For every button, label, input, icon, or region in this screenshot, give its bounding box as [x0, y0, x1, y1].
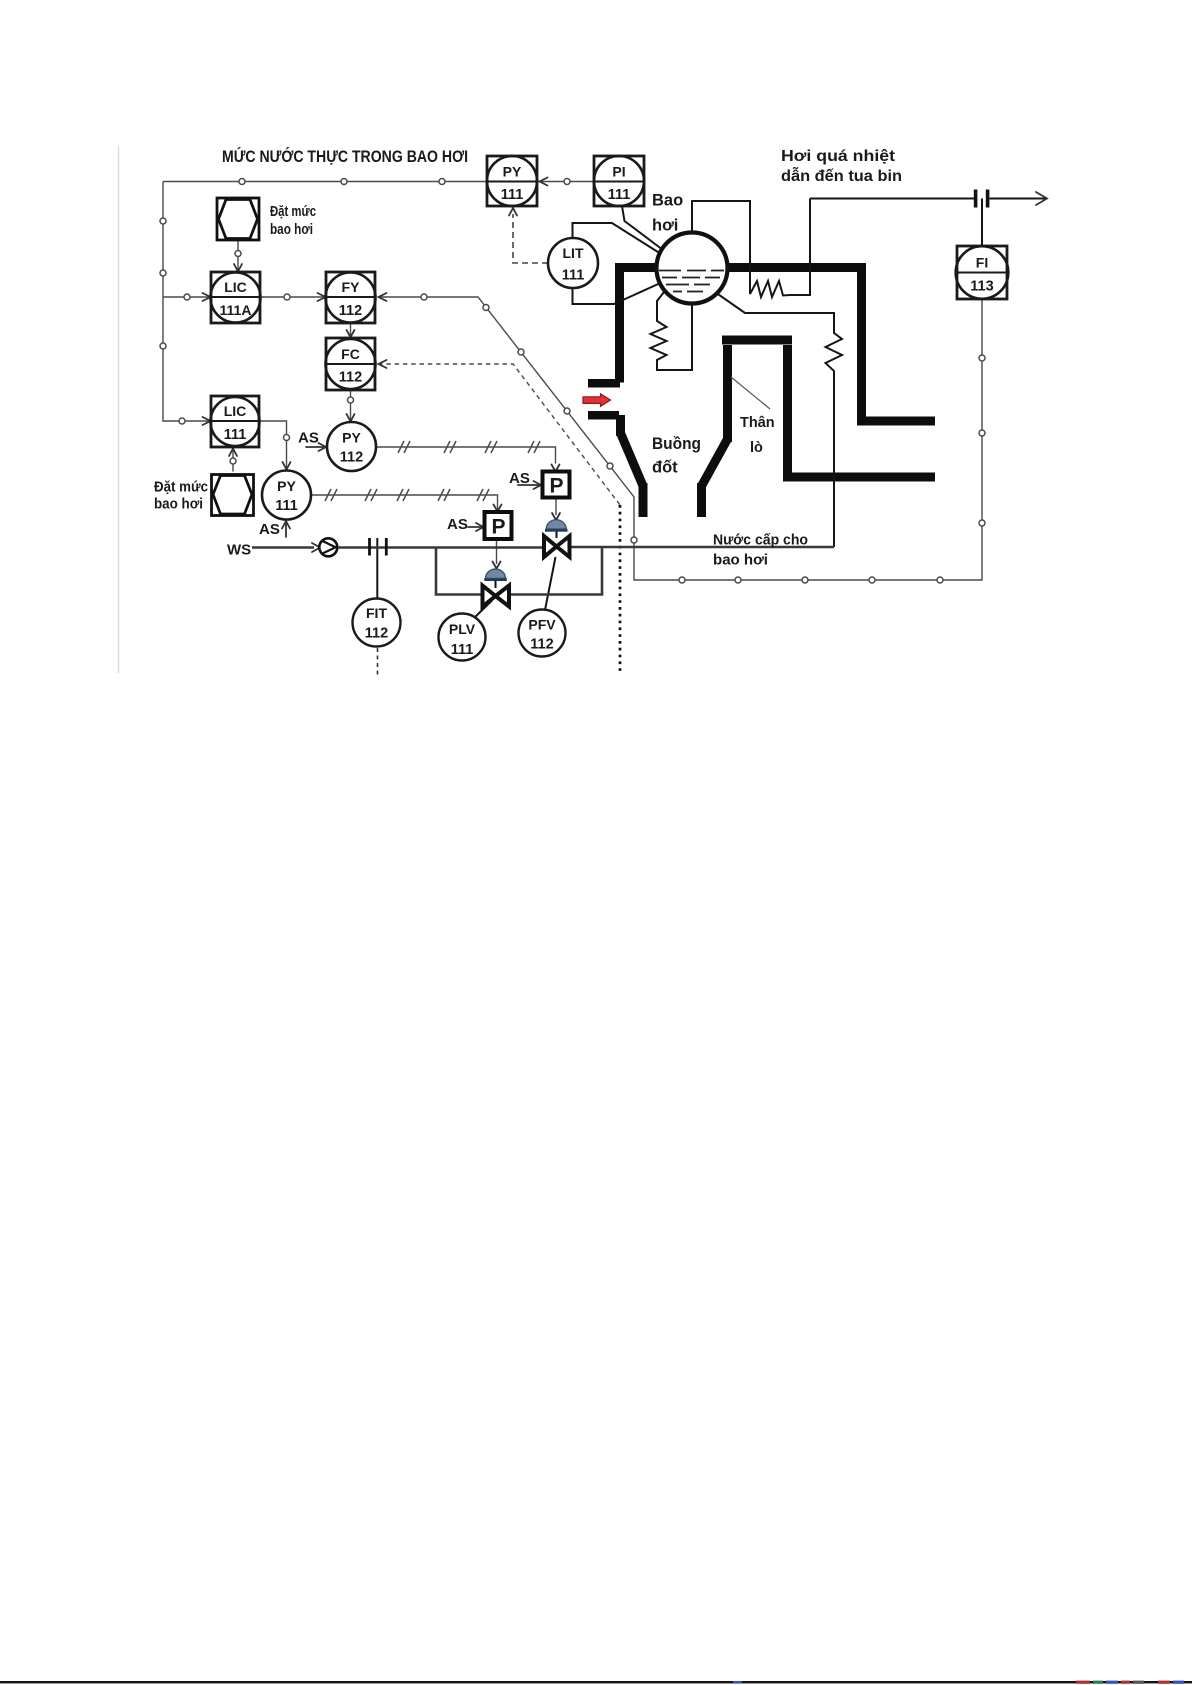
wire LIT111 dashed to PY111 top	[513, 214, 548, 263]
wire dashed feedback into FC112	[378, 364, 620, 505]
wire dotted boundary vertical	[619, 505, 622, 671]
svg-text:Hơi quá nhiệt: Hơi quá nhiệt	[781, 148, 896, 165]
svg-text:111: 111	[451, 642, 474, 658]
wire PI 111 impulse line to drum	[622, 206, 663, 250]
wire pneumatic PY111 to positioner P1	[311, 495, 498, 511]
svg-text:Thân: Thân	[740, 415, 775, 431]
wire steam drum top header pipe (thick)	[617, 263, 866, 272]
svg-text:PLV: PLV	[449, 621, 476, 637]
svg-text:hơi: hơi	[652, 217, 678, 235]
setpoint hexagon 1 (Dat muc bao hoi)	[217, 198, 259, 240]
instrument PY 111 (shared display, top)	[487, 156, 537, 206]
svg-text:P: P	[491, 516, 505, 539]
svg-text:111: 111	[224, 427, 247, 443]
relay PY 112 (field circle)	[327, 422, 376, 471]
orifice plate FE (flange taps)	[368, 538, 371, 556]
wire branch to LIC111A	[163, 296, 210, 298]
wire waterwall riser loop with zigzag coil (left of furnace)	[651, 292, 693, 370]
svg-text:112: 112	[340, 450, 363, 466]
svg-text:MỨC NƯỚC THỰC TRONG BAO HƠI: MỨC NƯỚC THỰC TRONG BAO HƠI	[222, 147, 468, 166]
wire steam downpipe right with lower arm (thick)	[862, 263, 936, 421]
svg-text:112: 112	[365, 626, 388, 642]
wire economizer riser: feedwater up through coil to drum	[714, 291, 843, 547]
wire data link left drop to LIC111	[163, 182, 210, 422]
svg-text:112: 112	[339, 370, 362, 386]
svg-text:111: 111	[275, 498, 298, 514]
svg-text:PY: PY	[342, 430, 361, 446]
svg-text:112: 112	[530, 637, 553, 653]
faint screenshot border	[118, 146, 120, 673]
svg-text:bao hơi: bao hơi	[713, 552, 768, 569]
svg-text:PFV: PFV	[528, 617, 556, 633]
svg-text:lò: lò	[750, 440, 763, 456]
wire P2 to valve2 actuator	[555, 497, 557, 515]
svg-text:FC: FC	[341, 346, 360, 362]
svg-text:113: 113	[970, 279, 993, 295]
arrowhead steam to turbine	[1036, 192, 1047, 205]
red flow arrow into burner	[583, 394, 611, 407]
svg-text:111: 111	[608, 187, 631, 203]
wire setpoint hexagon2 up to LIC111	[232, 449, 234, 472]
wire feedwater line to drum (Nuoc cap cho bao hoi)	[569, 546, 834, 549]
wire AS into P1	[468, 526, 482, 528]
svg-text:AS: AS	[509, 470, 530, 487]
instrument FI 113	[956, 199, 1009, 300]
transmitter FIT 112	[353, 538, 401, 675]
svg-text:FY: FY	[342, 279, 361, 295]
wire chimney right wall with lower right arm (thick)	[788, 345, 936, 477]
svg-text:WS: WS	[227, 542, 251, 559]
positioner PLV 111 circle	[439, 601, 493, 661]
svg-text:Đặt mức: Đặt mức	[154, 480, 208, 496]
setpoint hexagon 2 (Dat muc bao hoi)	[212, 475, 254, 516]
svg-text:bao hơi: bao hơi	[270, 222, 313, 238]
svg-text:112: 112	[339, 303, 362, 319]
burner lower plate	[588, 411, 619, 420]
wire bypass loop	[436, 548, 602, 595]
svg-text:P: P	[549, 475, 563, 498]
svg-text:dẫn đến tua bin: dẫn đến tua bin	[781, 166, 902, 185]
wire LIC111 to PY111	[259, 421, 287, 469]
instrument FY 112	[326, 272, 376, 323]
positioner P2 box	[543, 472, 570, 498]
wire furnace left wall upper (thick)	[615, 263, 624, 383]
burner upper plate	[588, 379, 620, 388]
instrument PI 111	[594, 156, 644, 206]
wire AS into P2	[518, 484, 540, 486]
instrument FC 112	[326, 338, 376, 390]
pointer line to Than lo label	[731, 377, 770, 409]
svg-text:đốt: đốt	[652, 459, 678, 477]
svg-text:PY: PY	[277, 478, 296, 494]
svg-text:LIC: LIC	[224, 403, 247, 419]
wire setpoint hexagon1 to LIC111A	[237, 240, 239, 271]
svg-text:Bao: Bao	[652, 192, 683, 210]
wire LIT 111 upper tap to drum	[573, 223, 660, 253]
wire steam flow signal: FI113 line to FY112 (long link)	[378, 297, 982, 580]
svg-text:LIC: LIC	[224, 279, 247, 295]
bottom screen edge bar	[0, 1681, 1192, 1683]
wire AS air supply into PY111	[285, 522, 287, 537]
relay PY 111 (field circle)	[262, 471, 311, 520]
svg-text:FIT: FIT	[366, 605, 387, 621]
wire P1 to valve1 actuator	[496, 539, 498, 564]
svg-text:Nước cấp cho: Nước cấp cho	[713, 532, 808, 549]
wire pneumatic PY112 to positioner P2	[376, 447, 556, 464]
svg-text:111A: 111A	[220, 302, 252, 318]
wire FY112 to FC112	[350, 323, 352, 337]
svg-text:AS: AS	[298, 430, 319, 447]
transmitter LIT 111	[548, 238, 598, 288]
wire chimney left wall + hopper slant (thick)	[723, 345, 732, 442]
instrument LIC 111A	[211, 272, 261, 323]
positioner P1 box	[485, 512, 512, 539]
flange pair on steam line	[974, 190, 978, 208]
svg-text:Đặt mức: Đặt mức	[270, 204, 316, 220]
wire superheater loop: drum top to steam line with zigzag coil	[692, 199, 810, 298]
control valve PFV (on main line)	[544, 520, 570, 557]
wire data link top: PY111 across top	[163, 181, 487, 183]
svg-text:AS: AS	[259, 521, 280, 538]
drum water level dashes	[659, 271, 724, 292]
control valve PLV (on bypass)	[483, 569, 510, 607]
instrument LIC 111	[211, 396, 260, 447]
svg-text:AS: AS	[447, 516, 468, 533]
svg-text:111: 111	[562, 268, 585, 284]
wire WS feedwater supply line	[252, 546, 314, 549]
wire AS air supply into PY112	[306, 446, 325, 448]
svg-text:PY: PY	[503, 164, 522, 180]
svg-text:PI: PI	[612, 164, 625, 180]
wire furnace left wall lower + hopper slant (thick)	[616, 415, 625, 436]
svg-text:bao hơi: bao hơi	[154, 497, 203, 513]
wire furnace chimney top cap (thick)	[722, 336, 792, 345]
svg-text:111: 111	[501, 187, 524, 203]
svg-text:FI: FI	[976, 255, 988, 271]
wire PI111 to PY111	[537, 181, 594, 183]
wire main steam line to turbine	[810, 198, 974, 200]
check valve / pump symbol on WS line	[319, 538, 337, 556]
wire LIT 111 lower tap to drum	[573, 283, 662, 305]
steam drum Bao hoi	[657, 233, 728, 304]
svg-text:LIT: LIT	[563, 245, 584, 261]
positioner PFV 112 circle	[519, 557, 566, 657]
wire main feedwater line through orifice and valve	[338, 546, 545, 549]
svg-text:Buồng: Buồng	[652, 435, 701, 453]
node top line	[239, 179, 245, 185]
wire FC112 to PY112	[350, 390, 352, 421]
wire LIC111A to FY112	[260, 296, 325, 298]
